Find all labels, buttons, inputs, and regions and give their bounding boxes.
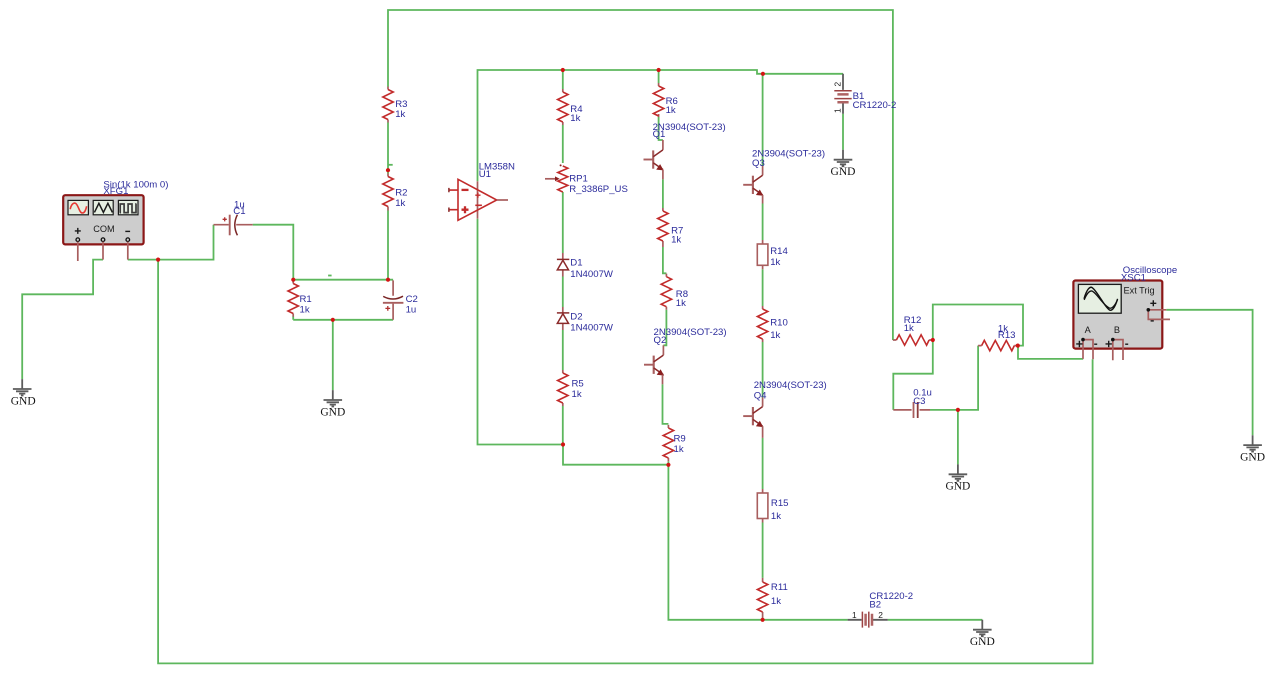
- svg-text:1k: 1k: [904, 323, 914, 334]
- svg-text:CR1220-2: CR1220-2: [853, 100, 897, 111]
- wire R6/Q1/R7/R8/Q2/R9 column segments: [659, 70, 669, 465]
- ground below scope Ext wire: [1240, 435, 1265, 463]
- XFG1 pin stub COM: [102, 242, 104, 260]
- svg-text:GND: GND: [11, 395, 36, 407]
- svg-text:1k: 1k: [671, 235, 681, 246]
- transistor Q3: [743, 149, 825, 204]
- wire node A tick: [388, 164, 393, 166]
- wire R2 bottom to C2 node: [387, 211, 389, 280]
- wire R3 to node junction: [387, 123, 389, 174]
- svg-text:GND: GND: [945, 481, 970, 493]
- svg-text:1N4007W: 1N4007W: [570, 269, 614, 280]
- svg-text:COM: COM: [93, 224, 114, 234]
- svg-text:RP1: RP1: [569, 173, 588, 184]
- resistor R8: [661, 274, 688, 310]
- svg-text:C1: C1: [233, 206, 245, 217]
- svg-text:1k: 1k: [770, 330, 780, 341]
- svg-text:R_3386P_US: R_3386P_US: [569, 184, 628, 195]
- wire C3 right to R13 left: [930, 346, 978, 410]
- svg-text:1k: 1k: [770, 257, 780, 268]
- svg-text:2: 2: [878, 610, 883, 620]
- ground below B1: [831, 150, 856, 178]
- svg-text:Q2: Q2: [654, 335, 667, 346]
- resistor R13: [978, 323, 1018, 350]
- wire C3 node to ground: [957, 410, 959, 465]
- node C1 R1: [291, 278, 295, 282]
- resistor R12: [893, 315, 933, 345]
- node R1 C2 bottom: [331, 318, 335, 322]
- svg-text:GND: GND: [970, 636, 995, 648]
- diode D1: [557, 253, 614, 280]
- battery B1 CR1220-2: [833, 74, 897, 114]
- node minus tick: [328, 275, 332, 277]
- svg-text:XFG1: XFG1: [103, 186, 128, 197]
- svg-text:B: B: [1114, 325, 1120, 335]
- svg-text:C3: C3: [913, 396, 925, 407]
- wire B2 to ground corner: [888, 619, 983, 621]
- svg-text:R13: R13: [998, 330, 1016, 341]
- op-amp U1 LM358N: [449, 162, 515, 221]
- svg-text:A: A: [1085, 325, 1092, 335]
- ground below C3: [945, 464, 970, 492]
- resistor R11: [757, 578, 787, 619]
- wire R4 column segments: [562, 70, 564, 445]
- node R5 bottom: [561, 442, 565, 446]
- oscilloscope XSC1: [1073, 265, 1177, 360]
- wire XFG1 COM to ground: [22, 260, 103, 380]
- svg-text:GND: GND: [1240, 452, 1265, 464]
- svg-text:1k: 1k: [771, 511, 781, 522]
- resistor R5: [558, 370, 584, 406]
- wire Q3/Q4 column segments: [762, 74, 764, 578]
- svg-text:R10: R10: [770, 317, 788, 328]
- resistor R6: [653, 83, 677, 117]
- node R4 rail: [561, 68, 565, 72]
- junction node dots: [156, 68, 1020, 622]
- capacitor C1: [214, 199, 253, 235]
- resistor R1: [288, 280, 312, 317]
- svg-text:R2: R2: [395, 187, 407, 198]
- resistor R4: [558, 89, 584, 125]
- node R11 bottom: [761, 618, 765, 622]
- svg-text:1k: 1k: [666, 105, 676, 116]
- transistor Q4: [743, 380, 827, 438]
- svg-text:1: 1: [833, 108, 843, 113]
- function generator XFG1: [63, 180, 168, 245]
- wire op-amp bottom to R5 node to R9 node to bottom rail: [478, 219, 848, 620]
- ground below XFG1 COM: [11, 379, 36, 407]
- svg-text:D2: D2: [570, 312, 582, 323]
- svg-text:R15: R15: [771, 498, 789, 509]
- svg-text:GND: GND: [320, 406, 345, 418]
- svg-text:1N4007W: 1N4007W: [570, 323, 614, 334]
- svg-text:1k: 1k: [676, 298, 686, 309]
- svg-text:1k: 1k: [674, 444, 684, 455]
- wire scope Ext Trig to ground: [1166, 310, 1252, 435]
- wire R12 node down to C3 left: [893, 340, 933, 410]
- diode D2: [557, 307, 614, 334]
- wire R12 node up-over to R13 right: [933, 305, 1023, 346]
- svg-text:1k: 1k: [572, 389, 582, 400]
- svg-text:D1: D1: [570, 258, 582, 269]
- node Q3 rail: [761, 72, 765, 76]
- transistor Q2: [644, 327, 727, 384]
- wire top rail loop: R3 top to R12 left: [388, 10, 893, 340]
- node R2 R3 junction: [386, 168, 390, 172]
- ground below R1/C2: [320, 390, 345, 418]
- wire B1 to ground: [842, 114, 844, 150]
- svg-text:Q3: Q3: [752, 158, 765, 169]
- node XFG minus: [156, 258, 160, 262]
- capacitor C3: [893, 388, 932, 419]
- wire R13 node to scope A+: [1018, 346, 1083, 359]
- svg-text:GND: GND: [831, 166, 856, 178]
- svg-text:1k: 1k: [395, 109, 405, 120]
- svg-text:1k: 1k: [771, 596, 781, 607]
- resistor R10: [757, 306, 787, 342]
- wire C1 right to R1/C2 node: [253, 225, 393, 280]
- svg-text:Q4: Q4: [754, 391, 767, 402]
- svg-text:U1: U1: [479, 169, 491, 180]
- wire R1/C2 bottom node: [293, 317, 393, 391]
- svg-text:R11: R11: [771, 582, 788, 593]
- node R9 bottom: [666, 463, 670, 467]
- svg-text:2: 2: [833, 82, 843, 87]
- resistor R14: [757, 240, 788, 269]
- wire C1 left to XFG1 minus: [128, 225, 214, 260]
- svg-text:1u: 1u: [406, 304, 417, 315]
- resistor R2: [383, 174, 408, 211]
- XFG1 pin stub plus: [77, 242, 79, 261]
- svg-text:2N3904(SOT-23): 2N3904(SOT-23): [754, 380, 827, 391]
- svg-text:R14: R14: [770, 246, 788, 257]
- capacitor C2: [383, 280, 418, 319]
- XFG1 pin stub minus: [127, 242, 129, 260]
- battery B2 CR1220-2: [848, 591, 914, 628]
- svg-text:Ext Trig: Ext Trig: [1124, 286, 1155, 296]
- svg-text:R5: R5: [572, 378, 584, 389]
- potentiometer RP1: [545, 164, 628, 195]
- transistor Q1: [644, 122, 726, 179]
- resistor R7: [658, 208, 684, 247]
- wire supply rail y70: [478, 70, 844, 181]
- node R12 right: [931, 338, 935, 342]
- node R2 C2: [386, 278, 390, 282]
- svg-text:Q1: Q1: [653, 129, 666, 140]
- svg-text:1k: 1k: [395, 198, 405, 209]
- node R6 rail: [657, 68, 661, 72]
- resistor R3: [383, 87, 408, 123]
- svg-text:1k: 1k: [300, 304, 310, 315]
- resistor R9: [663, 425, 686, 461]
- svg-text:R9: R9: [674, 434, 686, 445]
- svg-text:XSC1: XSC1: [1121, 272, 1146, 283]
- wire bottom long loop to scope A-: [158, 260, 1093, 664]
- ground right of B2: [970, 620, 995, 648]
- node R13 right: [1016, 344, 1020, 348]
- svg-text:1k: 1k: [570, 113, 580, 124]
- resistor R15: [757, 489, 788, 523]
- svg-text:1: 1: [852, 610, 857, 620]
- node C3 right: [956, 408, 960, 412]
- svg-text:B2: B2: [869, 600, 881, 611]
